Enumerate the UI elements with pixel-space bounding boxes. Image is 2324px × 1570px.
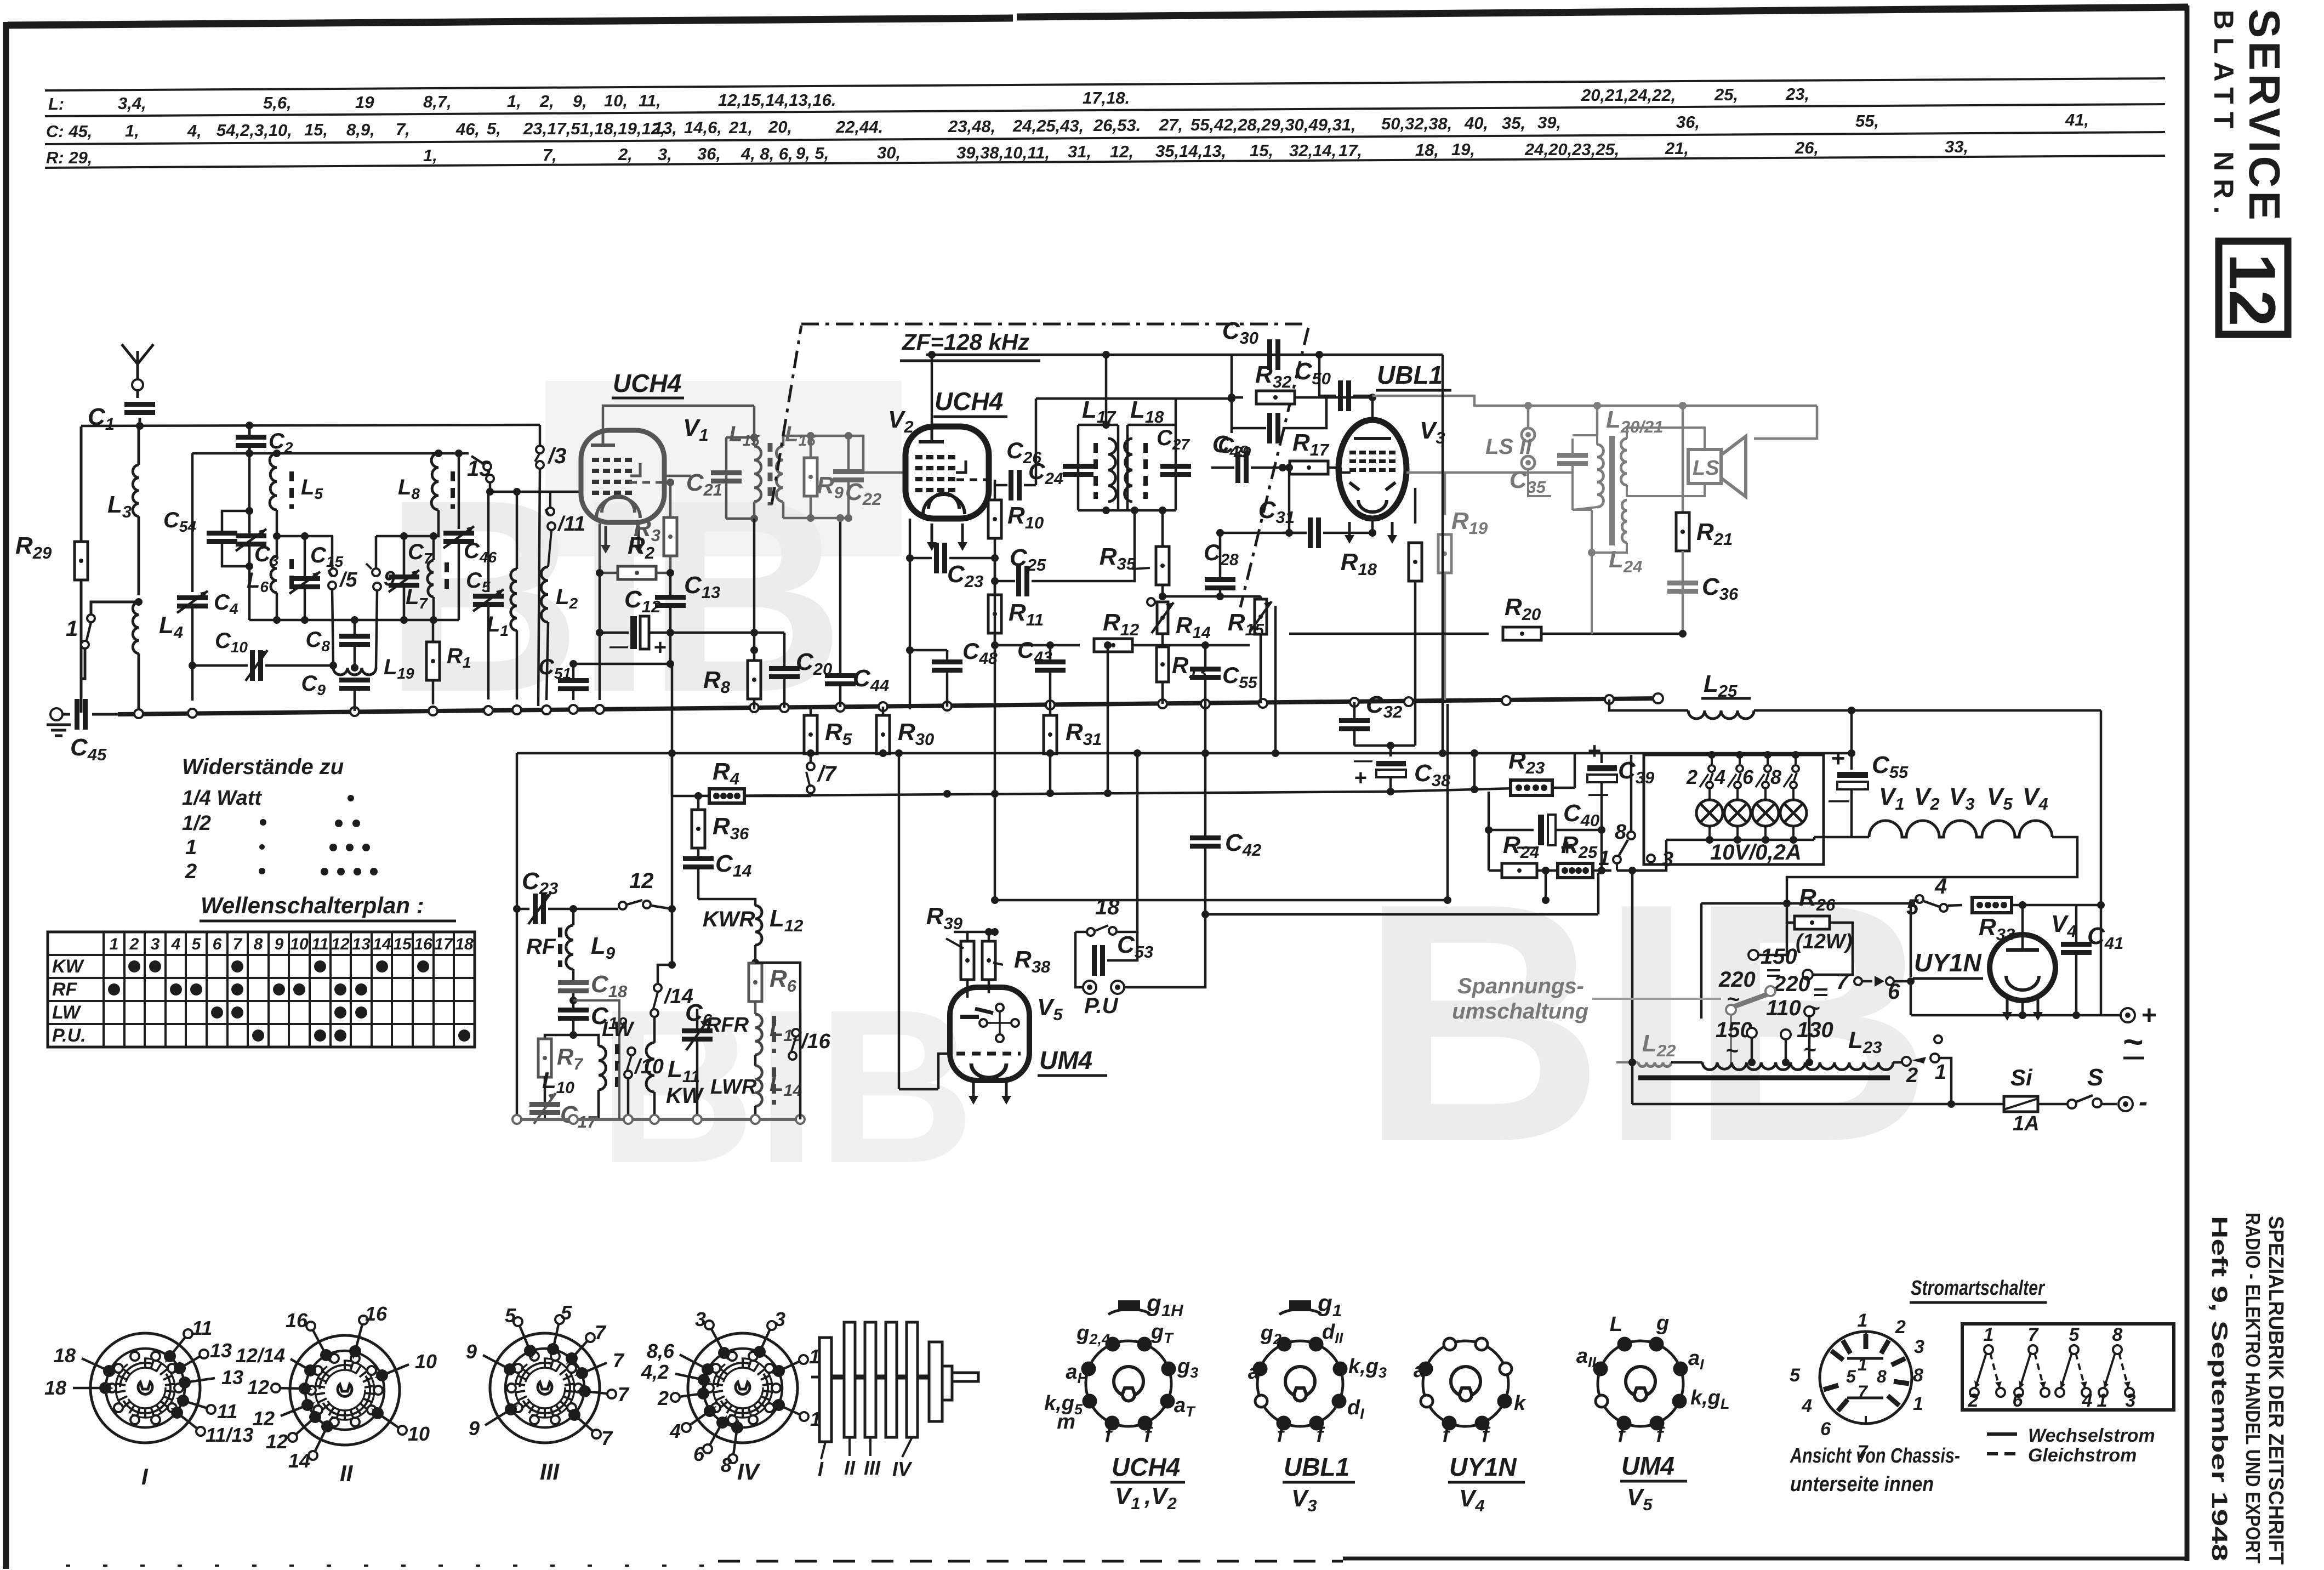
capacitor C45 [62, 699, 118, 764]
title stromartschalter [1910, 1277, 2047, 1302]
coil L18 [1125, 396, 1165, 502]
svg-text:Wellenschalterplan :: Wellenschalterplan : [201, 892, 424, 918]
svg-text:—: — [1828, 789, 1850, 812]
resistor R30 [876, 707, 934, 755]
svg-text:R: 29,: R: 29, [46, 148, 92, 167]
switch pair 5 [2055, 1324, 2093, 1411]
capacitor C48 [906, 638, 998, 707]
resistor R11 [988, 595, 1044, 658]
svg-text:13: 13 [352, 935, 371, 953]
svg-text:RF: RF [526, 935, 556, 959]
svg-text:12,15,14,13,16.: 12,15,14,13,16. [718, 90, 836, 110]
capacitor C22 [833, 436, 881, 518]
svg-text:2,: 2, [618, 145, 633, 164]
capacitor C23b [517, 868, 577, 924]
svg-text:41,: 41, [2065, 110, 2089, 129]
legend wechselstrom [1987, 1425, 2155, 1446]
svg-text:1: 1 [1858, 1310, 1868, 1331]
svg-text:40,: 40, [1464, 113, 1488, 133]
wire inner rail A [277, 532, 333, 540]
capacitor C53 [1075, 931, 1153, 976]
capacitor C8 [306, 620, 370, 668]
wire antenna top bus [81, 422, 540, 430]
wire C18 tap [573, 1000, 619, 1063]
wire lower left vertical [513, 753, 521, 1119]
wafer switch I [44, 1317, 253, 1489]
capacitor C18 [558, 971, 628, 1008]
switch contact 5 [328, 536, 358, 665]
wire cathode V4 [1911, 1000, 2101, 1019]
dial lamp 3 [1752, 788, 1779, 840]
svg-text:UBL1: UBL1 [1377, 361, 1443, 389]
svg-text:8,9,: 8,9, [346, 120, 375, 139]
svg-text:KWR: KWR [703, 907, 755, 931]
svg-text:LW: LW [52, 1002, 82, 1023]
svg-text:12: 12 [629, 869, 654, 893]
svg-text:~: ~ [1725, 1039, 1738, 1063]
wire IF2 out [1161, 510, 1164, 553]
svg-text:14,6,: 14,6, [684, 118, 722, 137]
svg-text:23,17,51,18,19,12,: 23,17,51,18,19,12, [523, 119, 665, 138]
svg-text:19: 19 [355, 93, 374, 112]
svg-text:C: 45,: C: 45, [46, 122, 92, 141]
svg-text:BIB: BIB [1359, 833, 1928, 1213]
wire V2 top [926, 351, 1443, 426]
coil L9 [526, 909, 616, 980]
svg-text:2: 2 [185, 860, 197, 883]
svg-text:7: 7 [2028, 1324, 2040, 1345]
svg-text:24,25,43,: 24,25,43, [1012, 116, 1084, 135]
svg-text:6: 6 [2013, 1390, 2024, 1411]
switch pair 7 [2013, 1324, 2049, 1411]
svg-text:SPEZIALRUBRIK DER ZEITSCHRIF: SPEZIALRUBRIK DER ZEITSCHRIFT [2264, 1216, 2287, 1565]
svg-text:2: 2 [1686, 766, 1698, 788]
svg-text:2: 2 [657, 1387, 669, 1409]
potentiometer R15 [1228, 596, 1272, 703]
socket UCH4 V1 V2 [1044, 1290, 1198, 1513]
svg-text:/16: /16 [800, 1030, 831, 1053]
resistor R13 [1157, 647, 1207, 704]
switch contact 5-4 [1906, 874, 1962, 977]
svg-text:4: 4 [1934, 874, 1947, 898]
svg-text:/5: /5 [339, 568, 358, 591]
capacitor C49 [1212, 397, 1326, 461]
shield boundary [772, 324, 1308, 607]
wire power top loop [1852, 710, 2101, 1015]
wire box rail [249, 616, 459, 624]
svg-text:2,: 2, [539, 92, 554, 111]
capacitor C25 [991, 507, 1138, 596]
svg-text:1,: 1, [125, 121, 139, 140]
resistor R26 [1787, 884, 1853, 954]
dial lamp panel box [1644, 755, 1824, 864]
svg-text:13: 13 [210, 1339, 232, 1362]
svg-text:18: 18 [54, 1344, 76, 1367]
svg-text:a: a [1414, 1359, 1425, 1382]
svg-text:1: 1 [1858, 1355, 1867, 1374]
svg-text:36,: 36, [1676, 112, 1700, 132]
capacitor C19 [558, 1003, 628, 1039]
svg-text:13: 13 [221, 1366, 243, 1389]
svg-text:35,: 35, [1502, 113, 1525, 133]
svg-text:3,4,: 3,4, [118, 94, 146, 113]
capacitor C30 [1222, 317, 1280, 370]
svg-text:22,44.: 22,44. [835, 117, 883, 136]
resistor R6 [749, 963, 797, 1014]
svg-text:10: 10 [290, 935, 309, 953]
coil L14 LWR [710, 1055, 802, 1119]
speaker LS [1688, 428, 1746, 497]
capacitor C9 [301, 672, 370, 711]
svg-text:3: 3 [774, 1308, 785, 1330]
terminal minus [2118, 1088, 2148, 1117]
variable capacitor C17 [529, 1093, 597, 1131]
table row C (capacitors) [46, 110, 2089, 141]
svg-text:unterseite innen: unterseite innen [1790, 1473, 1934, 1496]
socket UY1N V4 [1414, 1338, 1526, 1515]
svg-text:KW: KW [52, 956, 85, 977]
wire C14 to coils [668, 753, 755, 913]
dial lamp 2 [1724, 788, 1751, 840]
svg-text:14: 14 [288, 1449, 310, 1472]
svg-text:4: 4 [171, 935, 181, 953]
table row R (resistors) [46, 137, 1968, 167]
tube V1 UCH4 [581, 430, 664, 554]
resistor R31 [1044, 706, 1102, 793]
wire C12 bus [599, 633, 601, 700]
svg-text:UM4: UM4 [1621, 1452, 1674, 1480]
contact 220dc [1773, 954, 1853, 996]
svg-text:36,: 36, [697, 144, 721, 163]
resistor R38 [954, 928, 1051, 993]
ground terminal [47, 708, 71, 736]
svg-text:+: + [653, 635, 666, 659]
wire IF2 frame [1078, 421, 1176, 514]
svg-text:39,: 39, [1537, 113, 1561, 132]
svg-text:I: I [818, 1458, 824, 1480]
svg-text:P.U: P.U [1084, 994, 1119, 1018]
coil L12 KWR [703, 903, 803, 966]
lamp switch 4 [1714, 751, 1744, 788]
wire V3 anode out [1372, 473, 1573, 533]
svg-text:3: 3 [151, 935, 160, 953]
legend resistor wattage [182, 755, 378, 883]
switch S [2067, 1064, 2117, 1108]
coil L5 [270, 453, 323, 556]
resistor R7 [538, 1035, 583, 1102]
svg-text:6: 6 [1820, 1419, 1831, 1440]
coil L16 [776, 422, 816, 518]
svg-text:2: 2 [129, 935, 139, 953]
svg-text:LS: LS [1693, 457, 1719, 480]
wire heater return [1813, 837, 1816, 840]
svg-text:7: 7 [601, 1427, 613, 1449]
switch contact 3 [535, 425, 566, 706]
capacitor C42 [1190, 704, 1261, 914]
terminal plus [2101, 1001, 2156, 1030]
resistor R23 [1508, 747, 1575, 795]
contact 150dc [1748, 923, 1797, 976]
resistor R9 [804, 436, 844, 518]
svg-text:1: 1 [110, 935, 119, 953]
core L15 L16 [768, 443, 773, 505]
capacitor C15 [289, 536, 343, 620]
margin title SERVICE BLATT NR. [2208, 9, 2289, 224]
variable resistor R14b [1147, 598, 1279, 757]
capacitor C12 electrolytic [596, 573, 674, 659]
resistor R5 [804, 708, 852, 762]
switch contact 14 [651, 965, 693, 1031]
svg-text:Widerstände zu: Widerstände zu [182, 755, 344, 779]
chassis view caption [1790, 1444, 1960, 1496]
svg-text:9: 9 [275, 935, 284, 953]
resistor R2 [596, 524, 674, 579]
wire V5 bottom [895, 749, 938, 1089]
svg-text:150: 150 [1761, 945, 1797, 969]
variable capacitor C7 [389, 536, 433, 620]
capacitor C20 [769, 633, 832, 708]
svg-text:10: 10 [415, 1350, 437, 1373]
switch contact 7 [806, 762, 837, 796]
svg-text:27,: 27, [1159, 115, 1183, 134]
svg-text:7: 7 [618, 1383, 630, 1406]
coil L3 [107, 426, 143, 606]
svg-text:1: 1 [185, 836, 197, 859]
capacitor C26 [1006, 437, 1093, 477]
svg-text:9: 9 [466, 1340, 477, 1363]
variable capacitor C6 [668, 909, 713, 1119]
tube V5 UM4 [938, 987, 1029, 1105]
svg-text:+: + [1354, 766, 1366, 790]
switch contact 16 [789, 1029, 831, 1060]
wire bus2 [517, 749, 1855, 757]
svg-text:10V/0,2A: 10V/0,2A [1710, 840, 1802, 864]
svg-text:5: 5 [505, 1304, 516, 1327]
coil L1 [487, 492, 517, 699]
svg-text:9,: 9, [573, 92, 587, 111]
svg-text:5: 5 [2069, 1324, 2080, 1345]
svg-text:4: 4 [669, 1420, 681, 1442]
svg-text:12: 12 [2215, 253, 2289, 326]
wire bus3 [696, 786, 1514, 798]
svg-text:P.U.: P.U. [52, 1025, 86, 1046]
coil L23 [1638, 1027, 1893, 1078]
coil L15 [729, 422, 761, 519]
svg-text:3: 3 [1914, 1336, 1924, 1357]
svg-text:19,: 19, [1451, 140, 1475, 159]
svg-text:7: 7 [233, 935, 243, 953]
capacitor C14 [683, 850, 751, 899]
wire grid line V1 [490, 488, 581, 496]
wire left column [80, 426, 83, 713]
switch contact 18 [1075, 749, 1141, 936]
svg-text:I: I [141, 1464, 149, 1489]
svg-text:16: 16 [365, 1302, 388, 1325]
svg-text:~: ~ [1727, 987, 1739, 1011]
capacitor C24 [995, 458, 1063, 500]
svg-text:21,: 21, [728, 118, 753, 137]
svg-text:LS II: LS II [1485, 435, 1532, 459]
svg-text:20,: 20, [768, 117, 792, 136]
svg-text:7: 7 [1836, 970, 1849, 994]
svg-text:g: g [1656, 1312, 1669, 1335]
coil L10 [542, 1035, 606, 1119]
wave switch dots [108, 960, 470, 1042]
capacitor C35 [1510, 439, 1588, 510]
resistor R29 [15, 532, 88, 580]
wire output top [1372, 396, 1817, 439]
wafer switch III [466, 1301, 630, 1484]
svg-text:~: ~ [1803, 1038, 1816, 1062]
svg-text:18,: 18, [1415, 140, 1439, 160]
resistor R18 [1341, 488, 1422, 746]
variable capacitor C3 [236, 511, 279, 620]
svg-text:46,: 46, [455, 120, 480, 139]
svg-text:17,: 17, [1338, 141, 1362, 160]
svg-text:4: 4 [1801, 1396, 1812, 1417]
chassis socket view [1790, 1310, 1924, 1463]
svg-text:II: II [340, 1460, 354, 1486]
capacitor C21 [686, 469, 742, 499]
svg-text:4: 4 [1714, 766, 1725, 788]
switch detail box [1962, 1324, 2174, 1410]
capacitor C55a electrolytic [1828, 745, 1909, 837]
svg-text:(12W): (12W) [1796, 930, 1852, 953]
svg-text:10: 10 [408, 1423, 430, 1445]
wire box top [192, 450, 469, 457]
svg-text:L: L [1610, 1313, 1622, 1336]
label UCH4 V1 [612, 369, 709, 445]
svg-text:3: 3 [2126, 1390, 2136, 1411]
resistor R3 [634, 479, 677, 573]
capacitor C38a electrolytic [1353, 750, 1451, 792]
svg-text:6: 6 [213, 935, 222, 953]
capacitor C23 V2 [910, 519, 999, 591]
resistor R32 [1228, 355, 1376, 433]
svg-text:Spannungs-: Spannungs- [1457, 974, 1584, 998]
fuse Si [2004, 1065, 2067, 1135]
svg-text:24,20,23,25,: 24,20,23,25, [1524, 140, 1619, 159]
svg-text:9: 9 [469, 1417, 480, 1440]
svg-text:11: 11 [192, 1317, 212, 1339]
svg-text:umschaltung: umschaltung [1452, 999, 1588, 1023]
svg-text:1,: 1, [507, 92, 521, 111]
svg-text:IV: IV [892, 1458, 913, 1480]
coil L6 [247, 556, 292, 620]
wire to lamps [1617, 867, 1644, 1062]
svg-text:1: 1 [66, 617, 78, 641]
svg-text:Heft 9, September 1948: Heft 9, September 1948 [2207, 1216, 2231, 1561]
top parts table grid [45, 78, 2165, 168]
svg-text:RADIO - ELEKTRO HANDEL UND EXP: RADIO - ELEKTRO HANDEL UND EXPORT [2242, 1213, 2264, 1563]
resistor R4 [668, 749, 811, 803]
antenna [122, 344, 153, 390]
switch contact 2-1 [1893, 1036, 1951, 1104]
resistor R25 [1558, 830, 1611, 878]
svg-text:2: 2 [1968, 1390, 1979, 1411]
svg-text:3,: 3, [658, 145, 672, 164]
svg-text:12: 12 [331, 935, 350, 953]
svg-text:Ansicht von Chassis-: Ansicht von Chassis- [1790, 1444, 1960, 1467]
svg-text:7,: 7, [543, 145, 557, 164]
svg-text:23,: 23, [1785, 84, 1809, 104]
svg-text:26,53.: 26,53. [1093, 116, 1141, 135]
contact 150ac [1716, 1018, 1757, 1063]
svg-text:III: III [864, 1457, 881, 1479]
svg-text:31,: 31, [1068, 142, 1091, 161]
svg-text:20,21,24,22,: 20,21,24,22, [1581, 86, 1676, 105]
svg-text:15,: 15, [1250, 141, 1273, 160]
svg-text:ZF=128 kHz: ZF=128 kHz [902, 329, 1029, 355]
svg-text:8,6: 8,6 [647, 1340, 675, 1362]
capacitor C28 [1159, 533, 1261, 600]
switch contact 9 [366, 536, 395, 668]
svg-text:-: - [2139, 1088, 2148, 1117]
capacitor C36 [1667, 573, 1739, 604]
coil L24 [1573, 500, 1642, 634]
tube V2 UCH4 [905, 426, 995, 551]
label UBL1 [1376, 361, 1451, 390]
svg-text:1,: 1, [423, 146, 437, 165]
svg-text:4: 4 [2082, 1390, 2093, 1411]
heater chain V1-V4 [1787, 783, 2077, 903]
resistor R39 [926, 903, 974, 998]
wire V5 column [991, 558, 999, 900]
label ZF frequency [900, 329, 1040, 361]
svg-text:1: 1 [1935, 1061, 1946, 1084]
label V3 [1420, 417, 1445, 447]
svg-text:11,: 11, [639, 91, 661, 110]
switch 220 mains [1718, 968, 1775, 1062]
svg-text:26,: 26, [1795, 138, 1819, 157]
resistor R24 [1489, 832, 1558, 878]
ac dc symbol [2122, 1022, 2144, 1061]
svg-text:5: 5 [1846, 1367, 1856, 1386]
svg-text:Stromartschalter: Stromartschalter [1911, 1277, 2046, 1300]
svg-text:2: 2 [1906, 1064, 1918, 1087]
resistor R19 [1438, 473, 1488, 700]
svg-text:~: ~ [2122, 1022, 2143, 1061]
wire IF to V2 grid [853, 436, 905, 473]
legend gleichstrom [1987, 1445, 2137, 1466]
svg-text:m: m [1057, 1410, 1075, 1434]
svg-text:5: 5 [561, 1301, 572, 1324]
capacitor C44 [825, 514, 889, 707]
svg-text:a: a [1248, 1361, 1260, 1384]
switch contact 12 [573, 869, 672, 909]
wire L15 down [750, 519, 758, 709]
svg-text:25,: 25, [1714, 85, 1738, 104]
svg-text:12/14: 12/14 [236, 1344, 285, 1367]
svg-text:8: 8 [1615, 821, 1627, 844]
svg-text:IV: IV [737, 1459, 761, 1484]
capacitor C27 [1157, 426, 1191, 477]
svg-text:5: 5 [1906, 895, 1919, 919]
socket UM4 V5 [1576, 1312, 1730, 1514]
switch contact 8-1-3 [1598, 755, 1673, 871]
tube V4 UY1N [1990, 905, 2077, 1021]
wire C31 row [1216, 529, 1307, 537]
coil L13 RFR [706, 1014, 802, 1055]
svg-text:KW: KW [666, 1084, 704, 1108]
svg-text:UY1N: UY1N [1914, 948, 1981, 977]
svg-text:/3: /3 [547, 444, 566, 468]
svg-text:RF: RF [52, 979, 78, 1000]
svg-text:1/2: 1/2 [182, 812, 211, 835]
svg-text:Wechselstrom: Wechselstrom [2028, 1425, 2155, 1446]
svg-text:5,: 5, [487, 119, 501, 138]
svg-text:220: 220 [1773, 972, 1810, 996]
